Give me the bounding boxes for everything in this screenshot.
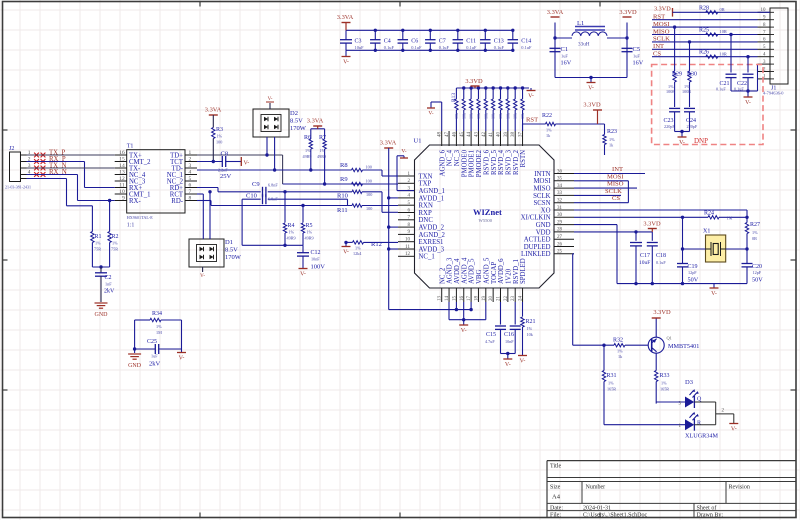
svg-text:AGND_4: AGND_4 — [461, 257, 468, 284]
svg-text:24: 24 — [519, 296, 524, 302]
svg-text:48: 48 — [438, 132, 443, 138]
svg-text:File:: File: — [550, 513, 561, 519]
svg-text:50V: 50V — [752, 277, 763, 284]
svg-text:Q1: Q1 — [667, 336, 672, 341]
svg-text:RSVD_4: RSVD_4 — [498, 149, 505, 175]
svg-text:28: 28 — [557, 228, 563, 233]
svg-text:RXN: RXN — [419, 203, 433, 210]
svg-text:X1: X1 — [703, 229, 710, 235]
svg-text:C17: C17 — [640, 253, 650, 259]
svg-text:10k: 10k — [498, 113, 503, 119]
svg-text:1nF: 1nF — [105, 282, 112, 287]
svg-text:V-: V- — [520, 359, 526, 365]
svg-text:MOSI: MOSI — [607, 173, 624, 180]
svg-text:6.8nF: 6.8nF — [268, 197, 278, 202]
svg-text:1: 1 — [189, 150, 192, 156]
svg-text:RX-: RX- — [129, 198, 141, 205]
svg-text:10uF: 10uF — [355, 45, 365, 50]
svg-text:10k: 10k — [513, 113, 518, 119]
svg-text:0.1uF: 0.1uF — [716, 87, 726, 92]
svg-text:16: 16 — [460, 296, 465, 302]
svg-text:C9: C9 — [252, 181, 260, 188]
svg-text:10nF: 10nF — [311, 257, 320, 262]
svg-text:25: 25 — [557, 250, 563, 255]
svg-text:AVDD_5: AVDD_5 — [469, 258, 476, 284]
svg-text:18: 18 — [474, 296, 479, 302]
svg-text:3.3VD: 3.3VD — [643, 221, 661, 228]
svg-text:C13: C13 — [494, 39, 504, 45]
svg-text:R11: R11 — [337, 207, 348, 214]
svg-text:RSTN: RSTN — [520, 150, 527, 167]
svg-text:V-: V- — [679, 140, 685, 146]
svg-text:R21: R21 — [526, 319, 536, 325]
svg-text:16: 16 — [119, 150, 125, 156]
svg-text:2kV: 2kV — [104, 289, 115, 295]
svg-text:165R: 165R — [660, 387, 669, 392]
svg-text:17: 17 — [467, 296, 472, 302]
svg-text:C15: C15 — [486, 332, 496, 338]
svg-text:1%: 1% — [661, 381, 667, 386]
svg-text:16V: 16V — [561, 60, 572, 67]
svg-text:RSVD_5: RSVD_5 — [491, 149, 498, 175]
svg-text:2kV: 2kV — [149, 361, 161, 368]
svg-text:1%: 1% — [156, 324, 162, 329]
svg-text:39: 39 — [504, 132, 509, 138]
svg-text:NC_4: NC_4 — [447, 149, 454, 166]
svg-text:C1: C1 — [561, 46, 569, 53]
svg-text:3.3VA: 3.3VA — [380, 140, 397, 147]
svg-text:1%: 1% — [307, 230, 313, 235]
svg-text:8.5V: 8.5V — [290, 118, 303, 125]
svg-text:C16: C16 — [504, 332, 514, 338]
svg-text:10k: 10k — [491, 113, 496, 119]
svg-text:AVDD_2: AVDD_2 — [419, 225, 445, 232]
svg-text:R25: R25 — [699, 28, 709, 34]
svg-text:26: 26 — [557, 242, 563, 247]
svg-text:35: 35 — [557, 177, 563, 182]
svg-text:AVDD_1: AVDD_1 — [419, 195, 445, 202]
svg-text:3: 3 — [189, 163, 192, 169]
svg-text:V-: V- — [179, 356, 185, 362]
svg-text:31: 31 — [557, 206, 563, 211]
svg-text:J2: J2 — [9, 146, 14, 152]
svg-text:V-: V- — [268, 97, 273, 102]
svg-text:MISO: MISO — [534, 186, 551, 193]
svg-text:NC_3: NC_3 — [454, 149, 461, 166]
svg-text:R30: R30 — [687, 72, 697, 78]
svg-text:R10: R10 — [337, 193, 348, 200]
svg-text:RSVD_6: RSVD_6 — [483, 149, 490, 175]
svg-text:41: 41 — [489, 132, 494, 138]
svg-text:1uF: 1uF — [633, 54, 640, 59]
svg-text:R5: R5 — [306, 223, 313, 229]
svg-text:1%: 1% — [609, 137, 615, 142]
svg-text:5: 5 — [189, 176, 192, 182]
svg-text:R13: R13 — [451, 93, 457, 102]
svg-text:2024-01-31: 2024-01-31 — [583, 506, 611, 512]
svg-text:Date:: Date: — [550, 506, 563, 512]
svg-text:R27: R27 — [750, 222, 760, 228]
svg-text:PMODE0: PMODE0 — [461, 149, 468, 177]
svg-text:V-: V- — [244, 161, 250, 167]
svg-text:0.1uF: 0.1uF — [439, 45, 450, 50]
svg-text:21: 21 — [497, 296, 502, 302]
svg-text:100: 100 — [366, 206, 372, 211]
svg-text:ACTLED: ACTLED — [524, 237, 551, 244]
svg-text:AVDD_4: AVDD_4 — [454, 258, 461, 284]
svg-text:Size: Size — [550, 485, 561, 491]
svg-text:DNC: DNC — [419, 217, 434, 224]
svg-text:R4: R4 — [288, 223, 295, 229]
svg-text:0.1uF: 0.1uF — [384, 45, 395, 50]
svg-text:R22: R22 — [542, 113, 552, 119]
svg-text:V-: V- — [300, 272, 306, 278]
svg-text:75R: 75R — [111, 247, 118, 252]
svg-text:R6: R6 — [304, 135, 311, 141]
svg-text:V-: V- — [528, 94, 534, 100]
svg-text:8.5V: 8.5V — [225, 247, 238, 254]
svg-text:10uF: 10uF — [639, 260, 650, 266]
svg-text:Revision: Revision — [729, 485, 750, 491]
svg-text:3.3VD: 3.3VD — [654, 6, 671, 13]
svg-text:C5: C5 — [633, 46, 641, 53]
svg-text:INTN: INTN — [534, 171, 550, 178]
svg-text:W5500: W5500 — [479, 218, 493, 223]
svg-text:100R: 100R — [666, 89, 675, 94]
svg-text:V-: V- — [745, 100, 751, 106]
svg-text:RSVD_1: RSVD_1 — [513, 259, 520, 284]
svg-text:R24: R24 — [704, 211, 714, 217]
svg-text:RSVD_3: RSVD_3 — [505, 149, 512, 175]
svg-text:XLUGR34M: XLUGR34M — [685, 433, 718, 440]
svg-text:10k: 10k — [527, 332, 534, 337]
svg-text:XI/CLKIN: XI/CLKIN — [521, 215, 551, 222]
svg-text:1%: 1% — [617, 349, 623, 354]
svg-text:13: 13 — [438, 296, 443, 302]
svg-text:1%: 1% — [95, 241, 101, 246]
svg-text:DUPLED: DUPLED — [524, 244, 551, 251]
svg-text:3.3VA: 3.3VA — [337, 14, 354, 21]
svg-text:1M: 1M — [156, 330, 162, 335]
svg-text:SCSN: SCSN — [533, 200, 550, 207]
svg-text:3.3VA: 3.3VA — [307, 118, 324, 125]
svg-text:DNP: DNP — [694, 137, 708, 145]
svg-text:220pF: 220pF — [664, 124, 675, 129]
svg-text:GND: GND — [95, 312, 109, 318]
svg-text:VBG: VBG — [476, 270, 483, 284]
svg-text:R31: R31 — [607, 373, 617, 379]
svg-text:SCLK: SCLK — [605, 188, 622, 195]
svg-text:PMODE1: PMODE1 — [469, 150, 476, 177]
svg-text:7: 7 — [189, 189, 192, 195]
svg-text:100: 100 — [216, 140, 222, 145]
svg-text:49R9: 49R9 — [305, 236, 314, 241]
svg-text:AGND_2: AGND_2 — [419, 232, 446, 239]
svg-text:4: 4 — [189, 170, 192, 176]
svg-text:V-: V- — [505, 362, 511, 368]
svg-text:9: 9 — [122, 196, 125, 202]
svg-text:R2: R2 — [112, 234, 119, 240]
svg-text:0.1uF: 0.1uF — [521, 45, 532, 50]
svg-text:37: 37 — [519, 132, 524, 138]
svg-text:SCLK: SCLK — [533, 193, 550, 200]
svg-text:0.1uF: 0.1uF — [656, 260, 666, 265]
svg-text:49R9: 49R9 — [303, 154, 312, 159]
svg-text:C4: C4 — [384, 39, 391, 45]
svg-text:V-: V- — [461, 328, 467, 334]
svg-text:1%: 1% — [752, 230, 758, 235]
svg-text:D2: D2 — [290, 110, 298, 117]
svg-text:12pF: 12pF — [688, 270, 697, 275]
svg-text:HX9601TAL-E: HX9601TAL-E — [127, 215, 154, 220]
svg-text:165R: 165R — [607, 387, 616, 392]
svg-text:10k: 10k — [469, 113, 474, 119]
svg-text:100R: 100R — [682, 89, 691, 94]
svg-text:4.7uF: 4.7uF — [485, 339, 495, 344]
svg-text:TXP: TXP — [419, 181, 432, 188]
svg-text:0.1uF: 0.1uF — [411, 45, 422, 50]
svg-text:100V: 100V — [311, 264, 326, 271]
svg-text:C6: C6 — [411, 39, 418, 45]
svg-text:1%: 1% — [320, 148, 326, 153]
svg-text:1uF: 1uF — [151, 354, 158, 359]
svg-text:R: R — [697, 421, 701, 427]
svg-text:C12: C12 — [311, 250, 321, 256]
svg-text:1%: 1% — [289, 230, 295, 235]
svg-text:Sheet of: Sheet of — [697, 505, 717, 512]
svg-text:16V: 16V — [633, 60, 644, 67]
svg-text:170W: 170W — [225, 254, 242, 261]
svg-text:XO: XO — [541, 207, 551, 214]
svg-text:6.8nF: 6.8nF — [268, 183, 278, 188]
svg-text:1:1: 1:1 — [127, 223, 135, 229]
svg-text:CS: CS — [612, 195, 620, 202]
svg-text:3.3VA: 3.3VA — [547, 9, 564, 16]
svg-text:V-: V- — [711, 291, 717, 297]
svg-text:1V20: 1V20 — [505, 268, 512, 284]
svg-text:14: 14 — [119, 163, 125, 169]
svg-text:30: 30 — [557, 213, 563, 218]
svg-text:40: 40 — [497, 132, 502, 138]
svg-text:42: 42 — [482, 132, 487, 138]
svg-text:1uF: 1uF — [561, 54, 568, 59]
svg-text:R29: R29 — [672, 72, 682, 78]
svg-text:45: 45 — [460, 132, 465, 138]
svg-text:R28: R28 — [699, 6, 709, 12]
svg-text:49R9: 49R9 — [287, 236, 296, 241]
svg-text:R26: R26 — [699, 50, 709, 56]
svg-text:12: 12 — [119, 176, 125, 182]
svg-text:8: 8 — [189, 196, 192, 202]
svg-text:V-: V- — [731, 427, 737, 433]
svg-text:43: 43 — [474, 132, 479, 138]
svg-text:C7: C7 — [439, 39, 446, 45]
svg-text:0.1uF: 0.1uF — [466, 45, 477, 50]
svg-text:13: 13 — [119, 170, 125, 176]
svg-text:RX_N: RX_N — [49, 169, 67, 176]
svg-text:10k: 10k — [454, 113, 459, 119]
svg-text:C25: C25 — [147, 339, 157, 345]
svg-text:LINKLED: LINKLED — [521, 251, 551, 258]
svg-text:V-: V- — [343, 250, 349, 256]
svg-text:10k: 10k — [476, 113, 481, 119]
svg-text:44: 44 — [467, 132, 472, 138]
svg-text:47: 47 — [445, 132, 450, 138]
svg-text:MOSI: MOSI — [534, 178, 552, 185]
svg-text:TOCAP: TOCAP — [491, 262, 498, 284]
svg-text:D1: D1 — [225, 239, 233, 246]
svg-text:Number: Number — [586, 485, 606, 491]
svg-text:VDD: VDD — [536, 229, 551, 236]
svg-text:6: 6 — [189, 183, 192, 189]
svg-text:12: 12 — [405, 252, 411, 257]
svg-text:32: 32 — [557, 199, 563, 204]
svg-text:WIZnet: WIZnet — [473, 207, 502, 217]
svg-text:29: 29 — [557, 220, 563, 225]
svg-text:R3: R3 — [216, 127, 223, 133]
svg-text:NC_2: NC_2 — [439, 267, 446, 284]
svg-text:15: 15 — [452, 296, 457, 302]
svg-text:38: 38 — [511, 132, 516, 138]
svg-text:T1: T1 — [127, 144, 134, 150]
svg-text:0.1uF: 0.1uF — [494, 45, 505, 50]
svg-text:23: 23 — [511, 296, 516, 302]
svg-text:TXN: TXN — [419, 173, 433, 180]
svg-text:1M: 1M — [727, 216, 733, 221]
svg-text:0R: 0R — [752, 236, 757, 241]
svg-text:R8: R8 — [340, 162, 348, 169]
svg-text:Title: Title — [550, 464, 561, 470]
svg-text:D3: D3 — [685, 379, 693, 386]
svg-text:GND: GND — [128, 363, 142, 369]
svg-text:11: 11 — [405, 245, 410, 250]
svg-text:C8: C8 — [221, 151, 229, 158]
svg-text:10k: 10k — [483, 113, 488, 119]
svg-text:10R: 10R — [720, 29, 727, 34]
svg-text:RD-: RD- — [171, 198, 183, 205]
svg-text:1%: 1% — [112, 241, 118, 246]
svg-text:R9: R9 — [340, 176, 348, 183]
svg-text:Drawn By:: Drawn By: — [697, 513, 724, 519]
svg-text:3.3VD: 3.3VD — [619, 9, 637, 16]
svg-text:49R9: 49R9 — [317, 154, 326, 159]
svg-text:14: 14 — [445, 296, 450, 302]
svg-text:RSVD_2: RSVD_2 — [513, 149, 520, 175]
svg-text:V-: V- — [401, 149, 406, 155]
svg-text:R33: R33 — [660, 373, 670, 379]
svg-text:R34: R34 — [152, 311, 162, 317]
svg-text:AGND_3: AGND_3 — [447, 257, 454, 284]
svg-text:10nF: 10nF — [505, 339, 514, 344]
svg-text:L1: L1 — [577, 20, 584, 27]
svg-text:SPDLED: SPDLED — [520, 258, 527, 284]
svg-text:4-794636-0: 4-794636-0 — [763, 91, 784, 96]
svg-text:10k: 10k — [461, 113, 466, 119]
svg-text:3.3VD: 3.3VD — [653, 309, 671, 316]
svg-text:AGND_5: AGND_5 — [483, 257, 490, 284]
svg-text:1%: 1% — [217, 134, 223, 139]
svg-text:V-: V- — [588, 86, 594, 92]
svg-text:GND: GND — [536, 222, 551, 229]
svg-text:V-: V- — [200, 274, 205, 279]
svg-text:MMBT5401: MMBT5401 — [668, 343, 699, 350]
svg-text:10: 10 — [119, 189, 125, 195]
svg-text:1%: 1% — [355, 246, 361, 251]
svg-text:1%: 1% — [608, 381, 614, 386]
svg-text:33uH: 33uH — [578, 42, 590, 48]
svg-text:C18: C18 — [656, 253, 666, 259]
svg-text:1%: 1% — [305, 148, 311, 153]
svg-text:C10: C10 — [246, 193, 257, 200]
svg-text:10R: 10R — [720, 51, 727, 56]
svg-text:25V: 25V — [220, 173, 232, 180]
svg-text:10: 10 — [405, 238, 411, 243]
svg-text:100: 100 — [366, 179, 372, 184]
svg-text:AGND_1: AGND_1 — [419, 188, 445, 195]
svg-text:36: 36 — [557, 169, 563, 174]
svg-text:2: 2 — [189, 157, 192, 163]
svg-text:NC_1: NC_1 — [419, 254, 435, 261]
svg-text:50V: 50V — [688, 277, 699, 284]
svg-text:AGND_6: AGND_6 — [439, 149, 446, 176]
svg-text:22: 22 — [504, 296, 509, 302]
svg-text:21-03-381-2431: 21-03-381-2431 — [5, 185, 31, 190]
svg-text:27: 27 — [557, 235, 563, 240]
svg-text:MISO: MISO — [607, 181, 624, 188]
svg-text:33: 33 — [557, 191, 563, 196]
svg-text:RST: RST — [526, 117, 538, 124]
svg-text:0R: 0R — [720, 7, 725, 12]
svg-text:12pF: 12pF — [753, 270, 762, 275]
svg-text:A4: A4 — [552, 494, 561, 501]
svg-text:R1: R1 — [95, 234, 102, 240]
svg-text:R7: R7 — [319, 135, 326, 141]
svg-text:AVDD_6: AVDD_6 — [498, 258, 505, 284]
svg-text:1%: 1% — [527, 326, 533, 331]
svg-text:3.3VA: 3.3VA — [205, 107, 222, 114]
svg-text:AVDD_3: AVDD_3 — [419, 246, 445, 253]
svg-text:C2: C2 — [105, 275, 112, 281]
svg-text:3.3VD: 3.3VD — [583, 102, 601, 109]
svg-text:INT: INT — [612, 166, 623, 173]
svg-text:RXP: RXP — [419, 210, 432, 217]
svg-text:C3: C3 — [355, 39, 362, 45]
svg-text:20: 20 — [489, 296, 494, 302]
svg-text:34: 34 — [557, 184, 563, 189]
svg-text:10k: 10k — [505, 113, 510, 119]
svg-text:220pF: 220pF — [687, 124, 698, 129]
svg-text:46: 46 — [452, 132, 457, 138]
svg-text:V-: V- — [428, 111, 433, 117]
svg-text:1%: 1% — [546, 128, 552, 133]
svg-text:R32: R32 — [613, 338, 623, 344]
svg-text:R23: R23 — [607, 129, 617, 135]
svg-text:V-: V- — [343, 60, 349, 66]
svg-text:EXRES1: EXRES1 — [419, 239, 444, 246]
svg-text:12k4: 12k4 — [353, 251, 362, 256]
svg-text:170W: 170W — [290, 125, 307, 132]
svg-text:R12: R12 — [371, 241, 382, 248]
svg-text:10k: 10k — [520, 113, 525, 119]
svg-text:C14: C14 — [521, 39, 531, 45]
svg-text:100: 100 — [366, 165, 372, 170]
svg-text:C:\Users\..\Sheet1.SchDoc: C:\Users\..\Sheet1.SchDoc — [583, 513, 647, 519]
svg-text:U1: U1 — [414, 138, 422, 145]
svg-text:15: 15 — [119, 157, 125, 163]
svg-text:3.3VD: 3.3VD — [465, 78, 483, 85]
svg-text:19: 19 — [482, 296, 487, 302]
svg-text:100: 100 — [366, 192, 372, 197]
